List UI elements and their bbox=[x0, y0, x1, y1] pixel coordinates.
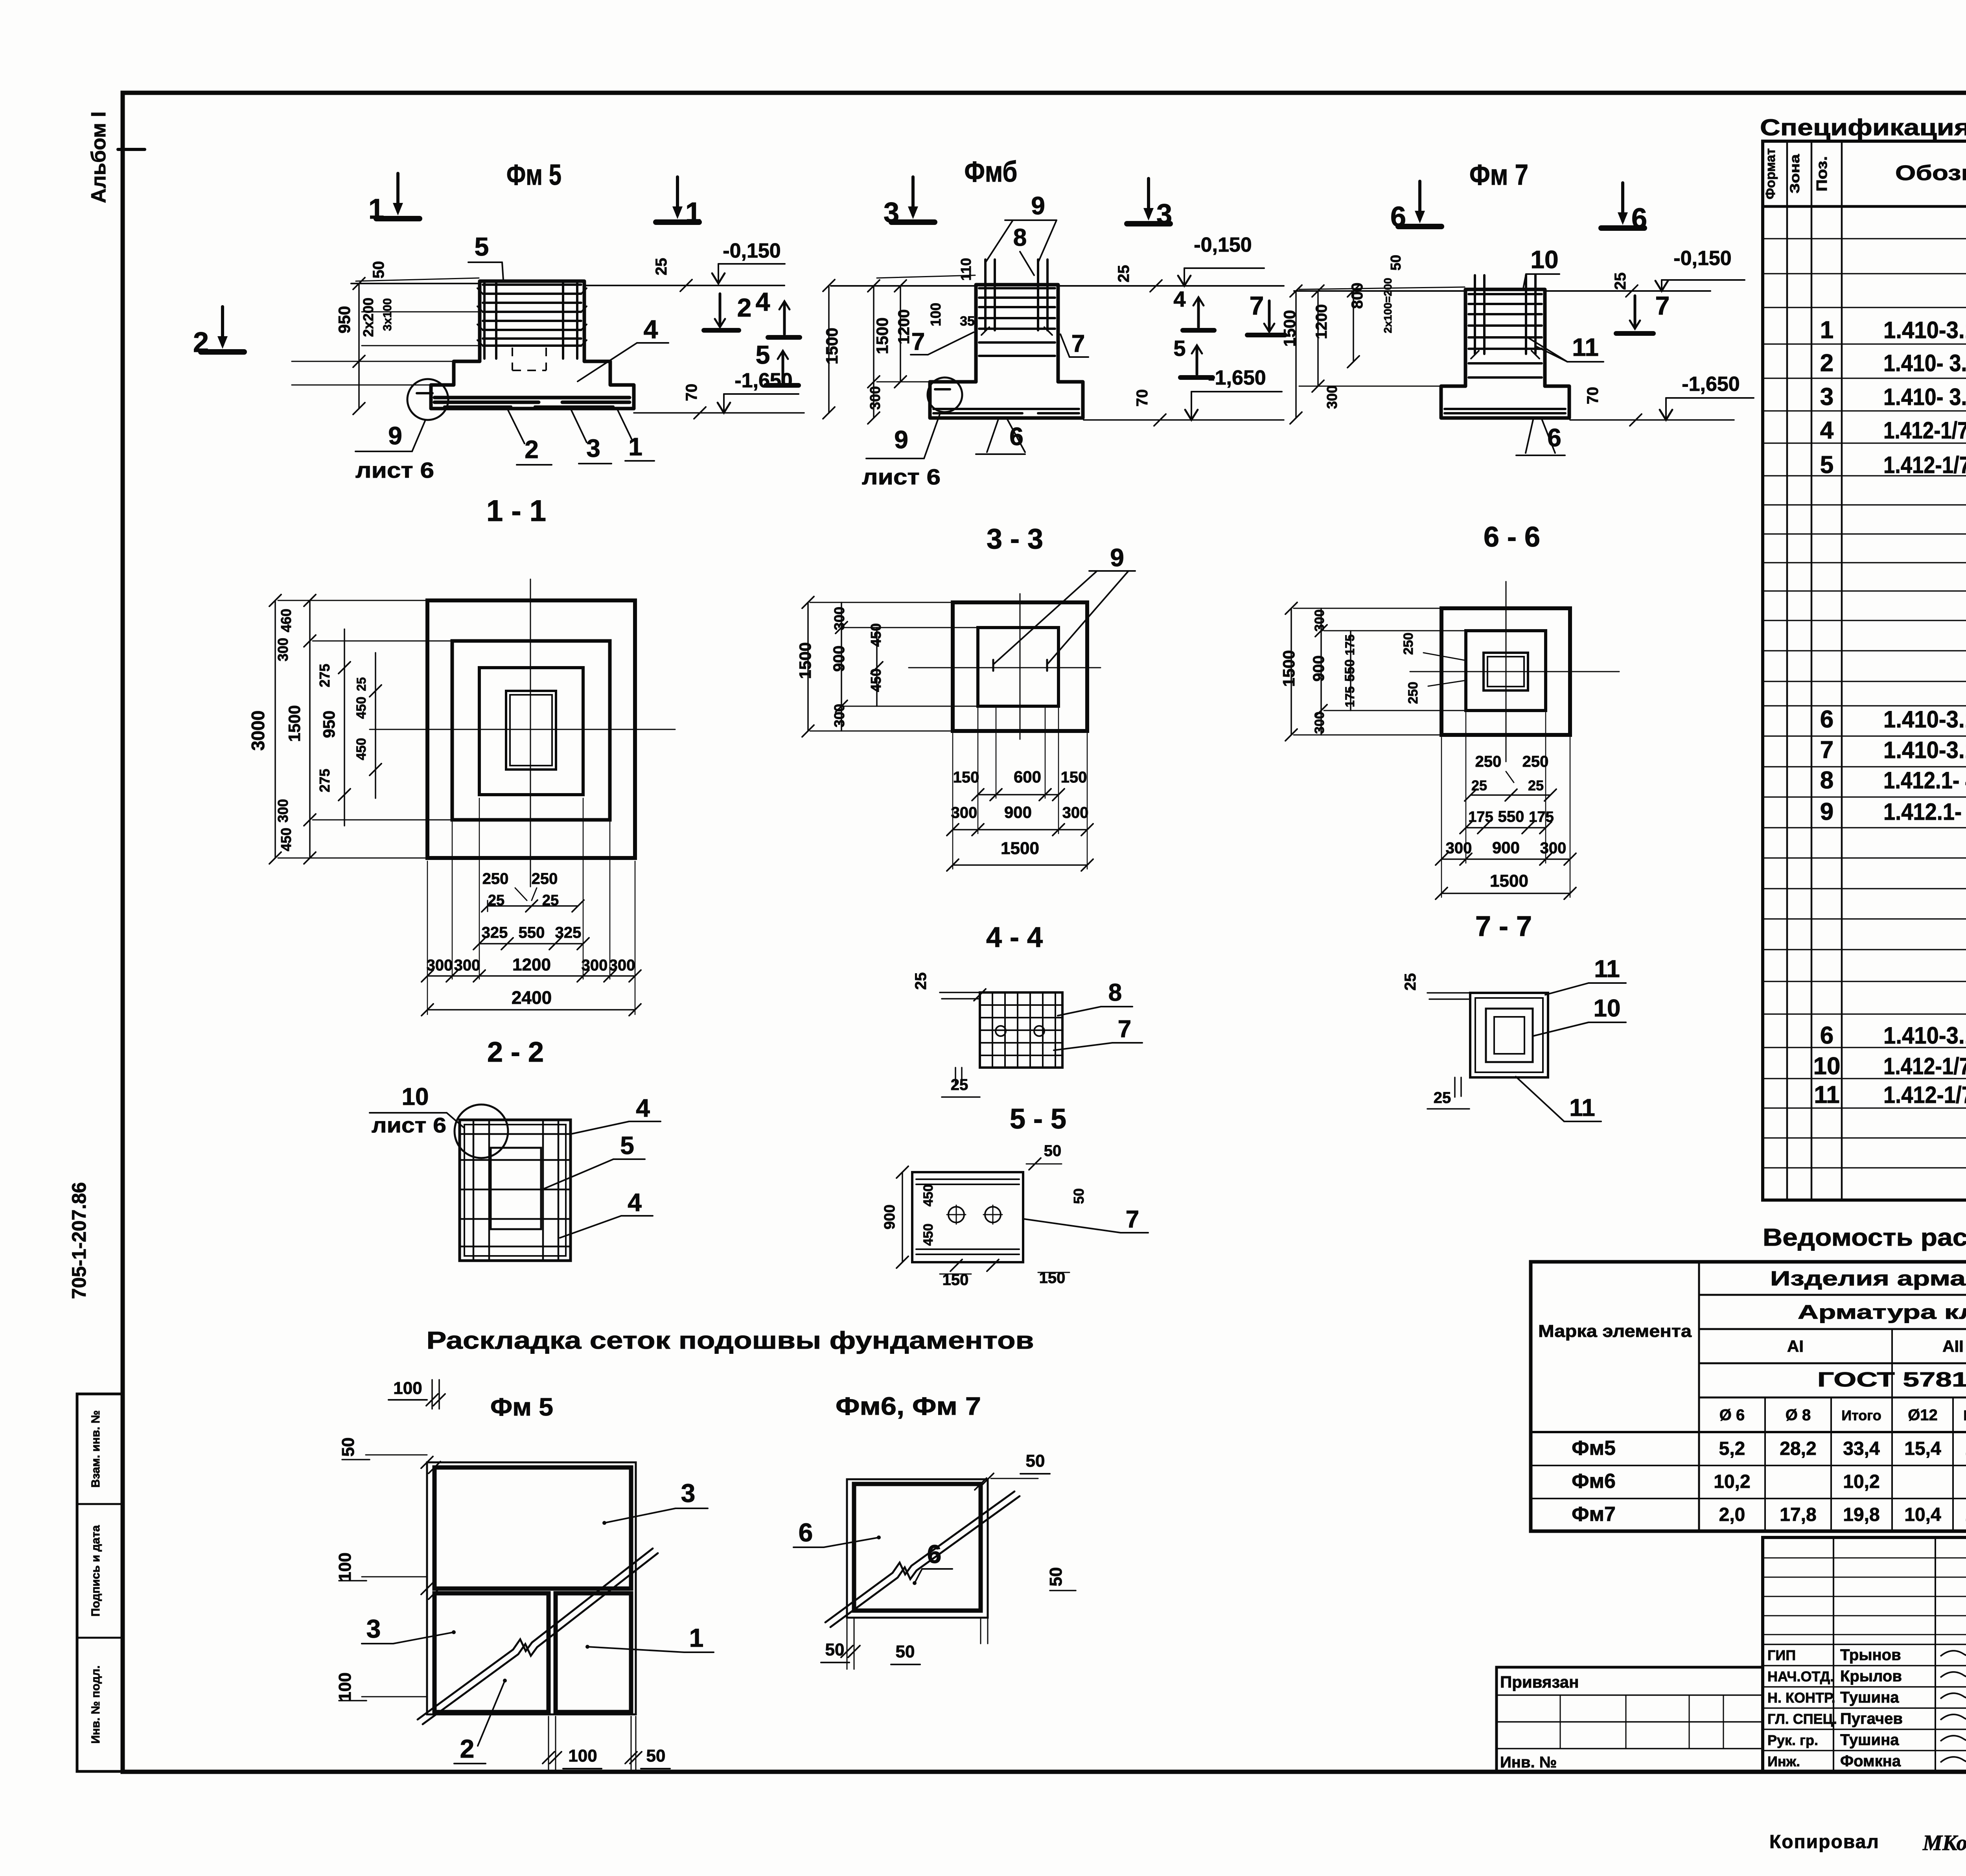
svg-text:2: 2 bbox=[193, 327, 209, 358]
svg-text:Тушина: Тушина bbox=[1840, 1689, 1899, 1706]
svg-text:Н. КОНТР.: Н. КОНТР. bbox=[1767, 1690, 1835, 1706]
svg-text:5: 5 bbox=[475, 232, 489, 261]
svg-text:33,4: 33,4 bbox=[1843, 1438, 1880, 1459]
svg-text:9: 9 bbox=[894, 425, 908, 454]
svg-text:705-1-207.86: 705-1-207.86 bbox=[68, 1182, 90, 1299]
svg-text:лист 6: лист 6 bbox=[355, 458, 434, 482]
Fm7 ground line bbox=[1294, 290, 1710, 292]
detail 7-7 dims 25 bbox=[1402, 973, 1469, 1109]
plan 6-6 centerlines bbox=[1410, 582, 1619, 762]
svg-text:50: 50 bbox=[1026, 1451, 1045, 1471]
svg-text:9: 9 bbox=[1820, 798, 1833, 825]
svg-text:15,4: 15,4 bbox=[1904, 1438, 1941, 1459]
svg-text:300: 300 bbox=[427, 957, 453, 974]
svg-text:4: 4 bbox=[1820, 417, 1834, 444]
Fm7 section markers 6 bbox=[1390, 181, 1647, 234]
detail 2-2 callout 10 list6 bbox=[370, 1083, 464, 1137]
svg-text:1500: 1500 bbox=[873, 317, 891, 354]
svg-text:6: 6 bbox=[1820, 706, 1833, 733]
svg-text:175: 175 bbox=[1468, 809, 1493, 825]
svg-text:300: 300 bbox=[454, 957, 480, 974]
svg-text:70: 70 bbox=[683, 384, 700, 401]
svg-text:3: 3 bbox=[884, 197, 899, 228]
Fm5 detail circle bbox=[407, 379, 448, 420]
svg-text:100: 100 bbox=[928, 303, 944, 326]
Fm7 label 10 bbox=[1523, 245, 1559, 290]
label 7-7 bbox=[1475, 911, 1532, 942]
svg-text:250: 250 bbox=[1406, 682, 1421, 704]
raskladka Fm6 Fm7 label bbox=[836, 1392, 981, 1420]
svg-text:2: 2 bbox=[737, 293, 752, 322]
svg-text:7: 7 bbox=[1071, 330, 1085, 357]
Fm7 foundation outline bbox=[1441, 289, 1569, 418]
svg-text:325: 325 bbox=[555, 924, 582, 941]
plan 6-6 left dims bbox=[1279, 602, 1465, 741]
svg-text:25: 25 bbox=[951, 1076, 968, 1094]
plan 3-3 left dims bbox=[796, 596, 977, 737]
svg-text:250: 250 bbox=[1522, 753, 1549, 770]
svg-text:3: 3 bbox=[681, 1478, 696, 1508]
sidebar label Album I bbox=[87, 111, 145, 203]
svg-text:Формат: Формат bbox=[1763, 148, 1778, 199]
sidebar stamp boxes bbox=[77, 1394, 123, 1771]
svg-text:2: 2 bbox=[1820, 350, 1833, 377]
svg-text:3000: 3000 bbox=[248, 711, 268, 751]
svg-text:1.410- 3.1- 03: 1.410- 3.1- 03 bbox=[1883, 350, 1966, 376]
svg-text:Фм6, Фм 7: Фм6, Фм 7 bbox=[836, 1392, 981, 1420]
label 2-2 bbox=[487, 1036, 544, 1068]
plan 3-3 label 9 bbox=[993, 543, 1135, 671]
Fm5 right elevation marks bbox=[653, 239, 785, 291]
svg-text:300: 300 bbox=[1312, 609, 1327, 632]
svg-text:Привязан: Привязан bbox=[1500, 1673, 1579, 1691]
svg-text:3: 3 bbox=[1820, 383, 1833, 411]
svg-text:17,8: 17,8 bbox=[1780, 1504, 1816, 1525]
Fm5 bottom callouts 2 3 1 bbox=[508, 409, 654, 465]
plan 3-3 centerlines bbox=[909, 594, 1101, 739]
svg-text:300: 300 bbox=[1540, 840, 1567, 857]
svg-text:25: 25 bbox=[912, 972, 930, 990]
svg-text:1.412.1- 4.050: 1.412.1- 4.050 bbox=[1883, 767, 1966, 793]
svg-text:1.412.1- 4.060: 1.412.1- 4.060 bbox=[1883, 799, 1966, 825]
svg-text:150: 150 bbox=[1061, 769, 1087, 786]
svg-text:5: 5 bbox=[1820, 451, 1833, 479]
svg-text:Фм 5: Фм 5 bbox=[506, 158, 561, 191]
svg-text:19,8: 19,8 bbox=[1843, 1504, 1879, 1525]
Fm5 right dim 1500 bbox=[823, 280, 841, 419]
svg-text:5: 5 bbox=[1173, 336, 1185, 361]
svg-text:Тушина: Тушина bbox=[1840, 1731, 1899, 1749]
label 6-6 bbox=[1484, 521, 1540, 553]
svg-text:325: 325 bbox=[482, 924, 508, 941]
svg-text:300: 300 bbox=[1324, 385, 1340, 409]
Fm5 title bbox=[506, 158, 561, 191]
svg-text:300: 300 bbox=[1446, 840, 1472, 857]
svg-text:300: 300 bbox=[275, 638, 291, 661]
svg-text:3 - 3: 3 - 3 bbox=[987, 523, 1043, 555]
svg-text:900: 900 bbox=[1492, 838, 1520, 857]
svg-text:1: 1 bbox=[368, 193, 384, 225]
svg-text:100: 100 bbox=[568, 1746, 597, 1766]
plan 1-1 bottom dimension chains bbox=[422, 798, 641, 1016]
svg-text:9: 9 bbox=[1031, 191, 1045, 220]
svg-text:Фм 5: Фм 5 bbox=[490, 1393, 553, 1421]
svg-text:1.410-3.1- 02: 1.410-3.1- 02 bbox=[1883, 317, 1966, 343]
svg-text:Итого: Итого bbox=[1841, 1407, 1881, 1423]
raskladka Fm5 callouts bbox=[362, 1478, 714, 1764]
svg-text:50: 50 bbox=[339, 1438, 358, 1457]
Fm6 labels 7 left right bbox=[911, 328, 1088, 357]
svg-text:7: 7 bbox=[1126, 1206, 1139, 1233]
svg-text:Фм 7: Фм 7 bbox=[1469, 158, 1528, 191]
svg-text:175: 175 bbox=[1343, 686, 1357, 707]
Fm5 column rebar mesh bbox=[477, 282, 587, 359]
Fm7 right elevation marks bbox=[1612, 247, 1745, 297]
detail 4-4 dims 25 bbox=[912, 972, 986, 1097]
svg-text:Крылов: Крылов bbox=[1840, 1668, 1902, 1685]
svg-text:300: 300 bbox=[275, 799, 291, 823]
svg-text:Ø 8: Ø 8 bbox=[1786, 1407, 1811, 1424]
Fm6 label 9 with embed leaders bbox=[985, 191, 1057, 263]
svg-text:Изделия арматурные: Изделия арматурные bbox=[1770, 1267, 1966, 1290]
Fm6 right elevation marks bbox=[1115, 234, 1264, 292]
svg-text:70: 70 bbox=[1134, 389, 1151, 407]
svg-text:50: 50 bbox=[1044, 1142, 1062, 1160]
svg-text:Инв. № подл.: Инв. № подл. bbox=[89, 1665, 102, 1743]
svg-text:1: 1 bbox=[685, 197, 701, 228]
svg-text:25: 25 bbox=[1434, 1089, 1451, 1106]
Fm7 column rebar mesh bbox=[1469, 275, 1542, 377]
svg-text:1500: 1500 bbox=[1490, 871, 1528, 891]
svg-text:250: 250 bbox=[1401, 633, 1416, 655]
svg-text:7: 7 bbox=[1820, 736, 1833, 764]
svg-text:Подпись и дата: Подпись и дата bbox=[89, 1525, 102, 1616]
steel table data rows bbox=[1572, 1437, 1966, 1526]
plan 3-3 squares bbox=[953, 602, 1087, 731]
svg-text:Итого: Итого bbox=[1963, 1407, 1966, 1423]
Fm7 title bbox=[1469, 158, 1528, 191]
svg-text:2х200: 2х200 bbox=[360, 298, 376, 337]
svg-text:6: 6 bbox=[1390, 201, 1406, 233]
svg-text:ГИП: ГИП bbox=[1767, 1647, 1796, 1663]
svg-text:25: 25 bbox=[653, 258, 670, 276]
svg-text:-1,650: -1,650 bbox=[1208, 366, 1266, 389]
svg-text:4: 4 bbox=[644, 315, 658, 344]
Fm7 left dimensions bbox=[1280, 255, 1465, 424]
svg-text:4: 4 bbox=[1173, 287, 1185, 311]
svg-text:11: 11 bbox=[1569, 1094, 1595, 1121]
Fm5 slab rebar bbox=[434, 398, 630, 407]
Fm5 bottom callouts 9 list6 bbox=[355, 420, 434, 482]
svg-text:8: 8 bbox=[1820, 767, 1833, 794]
detail 7-7 labels 11 10 11 bbox=[1516, 955, 1626, 1121]
svg-text:3: 3 bbox=[1156, 199, 1172, 230]
svg-text:1200: 1200 bbox=[512, 955, 551, 974]
svg-text:Трынов: Трынов bbox=[1840, 1646, 1901, 1664]
raskladka Fm6 diagonal bbox=[825, 1491, 1020, 1627]
specification table title bbox=[1760, 115, 1966, 140]
Fm5 left dimensions bbox=[292, 261, 480, 414]
svg-text:2 - 2: 2 - 2 bbox=[487, 1036, 544, 1068]
Fm7 bottom callout 6 bbox=[1516, 418, 1565, 455]
Fm5 mark -1.650 bbox=[634, 369, 804, 419]
svg-text:7: 7 bbox=[911, 328, 925, 355]
svg-text:100: 100 bbox=[335, 1552, 355, 1581]
svg-text:11: 11 bbox=[1572, 333, 1599, 361]
svg-text:25: 25 bbox=[1612, 272, 1629, 290]
svg-text:150: 150 bbox=[953, 769, 979, 786]
steel table headers bbox=[1538, 1267, 1966, 1424]
svg-text:7 - 7: 7 - 7 bbox=[1475, 911, 1532, 942]
svg-text:28,2: 28,2 bbox=[1780, 1438, 1816, 1459]
svg-text:1: 1 bbox=[689, 1623, 704, 1652]
Fm5 label 4 bbox=[578, 315, 668, 381]
svg-text:ГЛ. СПЕЦ.: ГЛ. СПЕЦ. bbox=[1767, 1711, 1837, 1727]
svg-text:6: 6 bbox=[1820, 1022, 1833, 1049]
label 5-5 bbox=[1010, 1103, 1066, 1135]
Fm5 section markers 1-1 bbox=[368, 173, 701, 228]
svg-text:-1,650: -1,650 bbox=[734, 369, 792, 392]
Fm6 detail circle bbox=[928, 377, 962, 412]
svg-text:1500: 1500 bbox=[1279, 650, 1298, 687]
svg-text:Взам. инв. №: Взам. инв. № bbox=[89, 1410, 102, 1488]
plan 3-3 bottom dims bbox=[947, 708, 1093, 871]
svg-text:Фомкна: Фомкна bbox=[1840, 1753, 1901, 1770]
svg-text:7: 7 bbox=[1250, 291, 1264, 320]
svg-text:4 - 4: 4 - 4 bbox=[986, 922, 1043, 953]
svg-text:9: 9 bbox=[388, 422, 402, 450]
svg-text:1500: 1500 bbox=[796, 642, 814, 679]
svg-text:900: 900 bbox=[830, 646, 848, 672]
title block signature rows bbox=[1767, 1646, 1966, 1770]
svg-text:275: 275 bbox=[317, 664, 333, 687]
label 3-3 bbox=[987, 523, 1043, 555]
svg-text:4: 4 bbox=[636, 1094, 650, 1122]
svg-text:5: 5 bbox=[756, 340, 770, 369]
svg-text:8: 8 bbox=[1013, 224, 1027, 251]
plan 1-1 centerlines bbox=[370, 579, 675, 887]
svg-text:950: 950 bbox=[320, 711, 338, 738]
Fm6 mark -1.650 bbox=[1084, 366, 1284, 426]
svg-text:3: 3 bbox=[586, 434, 600, 462]
svg-text:250: 250 bbox=[532, 870, 558, 887]
svg-text:1: 1 bbox=[1820, 317, 1833, 344]
svg-text:2400: 2400 bbox=[512, 987, 552, 1008]
svg-text:550: 550 bbox=[1342, 659, 1357, 682]
svg-text:25: 25 bbox=[1115, 265, 1132, 283]
svg-text:50: 50 bbox=[370, 261, 387, 279]
svg-text:300: 300 bbox=[582, 957, 608, 974]
plan 6-6 rotated 250 labels bbox=[1401, 633, 1467, 704]
detail 4-4 mesh grid bbox=[980, 992, 1062, 1068]
svg-text:-0,150: -0,150 bbox=[1194, 234, 1252, 256]
svg-text:5: 5 bbox=[620, 1131, 634, 1160]
svg-text:300: 300 bbox=[831, 704, 847, 727]
svg-text:1500: 1500 bbox=[285, 705, 304, 742]
steel consumption table title bbox=[1763, 1224, 1966, 1251]
svg-text:35: 35 bbox=[960, 314, 975, 329]
svg-text:7: 7 bbox=[1118, 1016, 1131, 1043]
detail 2-2 circle bbox=[455, 1105, 508, 1158]
svg-text:50: 50 bbox=[1388, 255, 1404, 271]
svg-text:-0,150: -0,150 bbox=[1673, 247, 1731, 270]
Fm5 marker 2 down bbox=[704, 293, 751, 330]
plan 1-1 left dimension stack bbox=[248, 595, 451, 864]
svg-text:Раскладка сеток подошвы: Раскладка сеток подошвы фундаментов bbox=[427, 1327, 1034, 1354]
Fm6 label 8 bbox=[1013, 224, 1034, 275]
svg-text:25: 25 bbox=[354, 677, 368, 691]
svg-text:Поз.: Поз. bbox=[1814, 156, 1830, 191]
svg-text:АI: АI bbox=[1787, 1337, 1804, 1355]
Fm5 section marker 2 bbox=[193, 307, 244, 358]
Fm5 label 5 bbox=[468, 232, 503, 280]
svg-text:6 - 6: 6 - 6 bbox=[1484, 521, 1540, 553]
label 4-4 bbox=[986, 922, 1043, 953]
svg-text:8: 8 bbox=[1108, 979, 1122, 1006]
svg-text:275: 275 bbox=[317, 769, 333, 792]
svg-text:50: 50 bbox=[646, 1746, 666, 1766]
Fm6 section markers 3 bbox=[884, 177, 1172, 230]
raskladka Fm5 diagonal break line bbox=[418, 1548, 658, 1724]
svg-text:Пугачев: Пугачев bbox=[1840, 1710, 1903, 1727]
svg-text:25: 25 bbox=[1528, 777, 1544, 793]
svg-text:Копировал: Копировал bbox=[1769, 1832, 1879, 1852]
Fm6 foundation outline bbox=[930, 285, 1083, 418]
svg-text:6: 6 bbox=[927, 1539, 942, 1569]
Fm5 ground line bbox=[351, 284, 784, 285]
svg-text:1 - 1: 1 - 1 bbox=[486, 494, 546, 528]
Fm6 ground line bbox=[831, 285, 1284, 287]
svg-text:10: 10 bbox=[1813, 1053, 1841, 1080]
svg-text:900: 900 bbox=[882, 1204, 898, 1229]
svg-text:9: 9 bbox=[1110, 543, 1124, 572]
label 1-1 bbox=[486, 494, 546, 528]
title block grid bbox=[1763, 1537, 1966, 1772]
svg-text:1.412-1/77-В.3-100: 1.412-1/77-В.3-100 bbox=[1883, 1082, 1966, 1108]
svg-text:300: 300 bbox=[951, 804, 977, 821]
svg-text:Рук. гр.: Рук. гр. bbox=[1767, 1732, 1818, 1748]
raskladka Fm5 dims bbox=[335, 1379, 670, 1773]
svg-text:1.410-3.1- 04: 1.410-3.1- 04 bbox=[1883, 706, 1966, 733]
title block left part (Privyazan) bbox=[1497, 1667, 1763, 1772]
raskladka Fm6 rects bbox=[847, 1479, 988, 1618]
svg-text:4: 4 bbox=[756, 287, 770, 316]
svg-text:100: 100 bbox=[335, 1672, 355, 1701]
svg-text:2: 2 bbox=[525, 435, 539, 464]
sidebar handwritten doc number 705-1-207.86 bbox=[68, 1182, 90, 1299]
svg-text:2,0: 2,0 bbox=[1719, 1504, 1745, 1525]
Fm5 dashed column anchors bbox=[512, 348, 546, 370]
svg-text:Фм7: Фм7 bbox=[1572, 1503, 1616, 1526]
kopiroval line bbox=[1769, 1831, 1966, 1855]
svg-text:4: 4 bbox=[628, 1188, 642, 1217]
svg-text:110: 110 bbox=[958, 258, 974, 281]
svg-text:50: 50 bbox=[1046, 1567, 1066, 1587]
raskladka Fm5 mesh rects bbox=[434, 1467, 631, 1712]
svg-text:175: 175 bbox=[1343, 634, 1357, 655]
svg-text:Фмб: Фмб bbox=[965, 155, 1018, 188]
svg-text:3: 3 bbox=[366, 1614, 381, 1643]
Fm7 mark -1.650 bbox=[1570, 373, 1754, 426]
svg-text:6: 6 bbox=[799, 1518, 813, 1547]
detail 2-2 mesh bbox=[460, 1120, 571, 1261]
svg-text:Инж.: Инж. bbox=[1767, 1753, 1800, 1769]
svg-text:ГОСТ 5781-82*: ГОСТ 5781-82* bbox=[1817, 1368, 1966, 1391]
svg-text:70: 70 bbox=[1584, 387, 1602, 405]
svg-text:10: 10 bbox=[402, 1083, 429, 1110]
svg-text:АII: АII bbox=[1942, 1337, 1964, 1355]
plan 6-6 bottom dims bbox=[1436, 712, 1576, 899]
svg-text:Марка элемента: Марка элемента bbox=[1538, 1322, 1692, 1341]
svg-text:550: 550 bbox=[519, 924, 545, 941]
raskladka Fm6 dims bbox=[821, 1451, 1077, 1669]
svg-text:Зона: Зона bbox=[1787, 154, 1802, 193]
svg-text:300: 300 bbox=[831, 607, 847, 630]
svg-text:МКоб-: МКоб- bbox=[1922, 1831, 1966, 1855]
svg-text:7: 7 bbox=[1655, 291, 1670, 320]
svg-text:Арматура класса: Арматура класса bbox=[1798, 1301, 1966, 1323]
svg-text:1.410-3.1- 04: 1.410-3.1- 04 bbox=[1883, 1022, 1966, 1049]
svg-text:250: 250 bbox=[1475, 753, 1502, 770]
spec rows: Fm7 section bbox=[1813, 923, 1966, 1167]
raskladka Fm5 label bbox=[490, 1393, 553, 1421]
svg-text:50: 50 bbox=[896, 1642, 915, 1661]
svg-text:2: 2 bbox=[460, 1734, 475, 1763]
steel consumption table grid bbox=[1531, 1262, 1966, 1531]
svg-text:450: 450 bbox=[921, 1224, 936, 1246]
svg-text:900: 900 bbox=[1004, 803, 1032, 821]
Fm6 slab rebar bbox=[933, 409, 1079, 413]
svg-text:2х100=200: 2х100=200 bbox=[1382, 278, 1394, 333]
Fm5 marker 5 up bbox=[756, 340, 799, 385]
svg-text:10: 10 bbox=[1530, 245, 1558, 274]
Fm7 marker 7 left bbox=[1247, 291, 1285, 335]
svg-text:50: 50 bbox=[1071, 1188, 1087, 1204]
svg-text:5 - 5: 5 - 5 bbox=[1010, 1103, 1066, 1135]
detail 5-5 slab bbox=[912, 1172, 1023, 1262]
svg-text:11: 11 bbox=[1814, 1081, 1840, 1108]
svg-text:Обозначение: Обозначение bbox=[1895, 161, 1966, 185]
svg-text:Спецификация элементов монол: Спецификация элементов монолитной констр… bbox=[1760, 115, 1966, 140]
svg-text:10,2: 10,2 bbox=[1843, 1471, 1879, 1492]
svg-text:Ø12: Ø12 bbox=[1908, 1407, 1938, 1424]
svg-text:1.410- 3.1- 04: 1.410- 3.1- 04 bbox=[1883, 384, 1966, 410]
plan 6-6 squares bbox=[1441, 608, 1570, 735]
svg-text:450: 450 bbox=[354, 697, 369, 719]
raskladka Fm5 outer rect bbox=[427, 1462, 636, 1714]
detail 5-5 dims bbox=[882, 1142, 1148, 1289]
Fm6 markers 4 5 up bbox=[1173, 287, 1214, 377]
svg-text:450: 450 bbox=[278, 828, 294, 851]
svg-text:300: 300 bbox=[1312, 712, 1327, 734]
svg-text:лист 6: лист 6 bbox=[862, 464, 941, 489]
svg-text:460: 460 bbox=[278, 609, 294, 632]
detail 4-4 labels 8 7 bbox=[1054, 979, 1142, 1050]
svg-text:11: 11 bbox=[1594, 955, 1620, 983]
specification table grid bbox=[1763, 141, 1966, 1200]
svg-text:100: 100 bbox=[393, 1379, 422, 1398]
svg-text:10,4: 10,4 bbox=[1904, 1504, 1941, 1525]
svg-text:1.410-3.1- 01: 1.410-3.1- 01 bbox=[1883, 737, 1966, 763]
svg-text:Фм5: Фм5 bbox=[1572, 1437, 1616, 1460]
svg-text:450: 450 bbox=[868, 668, 884, 692]
svg-text:300: 300 bbox=[867, 386, 883, 410]
raskladka title bbox=[427, 1327, 1034, 1354]
svg-text:450: 450 bbox=[868, 623, 884, 647]
Fm7 slab rebar bbox=[1445, 409, 1565, 413]
Fm6 column rebar mesh bbox=[979, 260, 1055, 356]
svg-text:1500: 1500 bbox=[1280, 310, 1299, 346]
